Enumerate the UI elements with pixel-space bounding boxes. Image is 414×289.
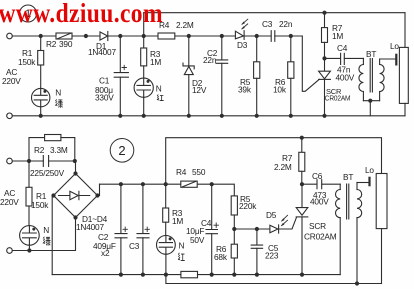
node C2 top: [220, 34, 224, 38]
node R5 top: [255, 34, 259, 38]
svg-text:1M: 1M: [172, 216, 183, 226]
svg-text:C1: C1: [99, 76, 110, 86]
node neon2 bottom: [27, 248, 31, 252]
node C1 top: [118, 34, 122, 38]
svg-text:R4: R4: [176, 167, 187, 177]
svg-text:x2: x2: [101, 248, 110, 258]
svg-text:12V: 12V: [192, 85, 207, 95]
svg-text:223: 223: [265, 251, 279, 261]
svg-text:10k: 10k: [273, 85, 287, 95]
wire neon red 2 bottom: [165, 254, 167, 274]
zener D2 12V: [188, 36, 190, 66]
node R1 top: [39, 34, 43, 38]
svg-text:SCR: SCR: [309, 221, 326, 231]
diode D1 1N4007: [100, 32, 108, 40]
svg-text:N: N: [55, 88, 61, 98]
wire R1-neon to bottom: [40, 107, 42, 116]
resistor R5 39k: [256, 36, 258, 62]
svg-text:BT: BT: [343, 172, 353, 182]
node BT2 secondary bottom: [355, 281, 359, 285]
svg-text:C6: C6: [312, 171, 323, 181]
capacitor C4 10uF 50V: [211, 184, 213, 229]
svg-text:150k: 150k: [18, 57, 36, 67]
wire BT1 bottom: [363, 100, 379, 102]
node SCR anode / C4: [322, 56, 326, 60]
svg-text:2.2M: 2.2M: [176, 20, 194, 30]
neon lamp N red 2: [157, 236, 176, 255]
svg-text:N: N: [156, 84, 162, 94]
wire bridge right to DC+: [98, 184, 100, 195]
SCR1 CR02AM: [324, 58, 326, 71]
resistor R4 2.2M: [158, 33, 175, 39]
wire neon green 2 bottom: [28, 245, 30, 250]
svg-text:50V: 50V: [190, 235, 205, 245]
photodiode D5: [270, 225, 278, 233]
resistor unlabeled in DC- rail: [181, 271, 198, 277]
node R6 top: [289, 34, 293, 38]
svg-text:R2: R2: [34, 145, 45, 155]
node C3(2) top: [141, 182, 145, 186]
neon lamp N green 2: [20, 226, 40, 246]
capacitor C1 800u 330V: [119, 36, 121, 72]
neon lamp N red 1: [134, 78, 153, 97]
resistor R7 2.2M: [301, 138, 303, 153]
svg-text:1M: 1M: [150, 57, 161, 67]
wire AC line 2: [12, 218, 75, 251]
wire Lo2 bottom: [381, 229, 383, 284]
wire gate path: [302, 36, 319, 91]
wire DC+ line y=184.2: [100, 184, 235, 196]
flash tube Lo1: [399, 47, 408, 103]
neon lamp N green 1: [32, 88, 50, 106]
terminal T4: [7, 248, 13, 254]
resistor R2 3.3M bypass: [29, 138, 45, 161]
bridge inner diode: [59, 195, 90, 197]
node C2(2) top: [119, 182, 123, 186]
node C5 top: [255, 227, 259, 231]
svg-text:C3: C3: [262, 19, 273, 29]
wire neon red to bottom: [143, 97, 145, 116]
trigger plate 1: [395, 55, 397, 65]
capacitor C4 47n 400V: [325, 57, 341, 59]
svg-text:550: 550: [192, 167, 206, 177]
capacitor C2 22n: [221, 36, 223, 60]
circled number 1: [20, 5, 37, 22]
node pre-D1: [84, 34, 88, 38]
resistor R4 550: [181, 181, 197, 187]
svg-text:2: 2: [118, 143, 125, 158]
LED D3: [235, 31, 243, 39]
resistor R6 10k: [290, 36, 292, 62]
wire top rail y=12.7: [144, 12, 405, 14]
svg-text:39k: 39k: [238, 85, 252, 95]
CJK glyph red 2: [178, 253, 185, 261]
svg-text:R2: R2: [46, 39, 57, 49]
wire Lo1 bottom: [404, 103, 406, 115]
capacitor C3 22n: [271, 31, 275, 42]
wire bridge top riser: [75, 161, 77, 174]
resistor R3 1M (2): [165, 184, 167, 208]
svg-text:150k: 150k: [31, 200, 49, 210]
labels circuit 2: [0, 145, 374, 262]
node R4 right / C4 top: [210, 182, 214, 186]
node R5 bottom: [232, 227, 236, 231]
terminal T1 top-left: [7, 33, 13, 39]
svg-text:D3: D3: [237, 40, 248, 50]
watermark www.dziuu.com: [0, 0, 163, 28]
capacitor C3 409uF: [142, 184, 144, 233]
svg-text:Lo: Lo: [365, 165, 374, 175]
resistor R7 1M: [324, 13, 326, 28]
bridge corner nodes: [73, 171, 77, 175]
transformer BT1 primary: [362, 58, 364, 64]
svg-text:2.2M: 2.2M: [274, 162, 292, 172]
svg-text:220k: 220k: [239, 201, 257, 211]
transformer BT2 primary: [339, 184, 341, 189]
transformer BT1 secondary: [379, 59, 381, 65]
flash tube Lo2: [376, 174, 387, 229]
wire top main y=36: [12, 35, 302, 37]
svg-text:www.dziuu.com: www.dziuu.com: [0, 0, 163, 28]
resistor R1 150k: [40, 36, 42, 51]
node R3(2) top / rail riser: [164, 182, 168, 186]
wire riser to top rail: [143, 13, 145, 36]
svg-text:1N4007: 1N4007: [76, 222, 104, 232]
resistor R3 1M: [143, 36, 145, 48]
wire AC line 1: [12, 160, 75, 162]
svg-text:3.3M: 3.3M: [50, 145, 68, 155]
svg-text:68k: 68k: [214, 252, 228, 262]
node R7(2) top on rail: [300, 136, 304, 140]
svg-text:N: N: [179, 241, 185, 251]
labels circuit 1: [2, 19, 399, 103]
circled number 2: [110, 139, 134, 163]
svg-text:C4: C4: [337, 43, 348, 53]
CJK glyph green 1: [55, 99, 63, 107]
resistor R2 390: [56, 33, 72, 39]
trigger plate 2: [368, 178, 370, 185]
capacitor C5 223: [256, 229, 258, 245]
wire DC- rail y=274.6: [52, 274, 340, 276]
node SCR2 anode / C6: [300, 182, 304, 186]
resistor R6 68k: [233, 229, 235, 244]
wire bottom rail y=115.8: [12, 115, 405, 117]
capacitor C2 409uF: [120, 184, 122, 233]
svg-text:Lo: Lo: [390, 41, 399, 51]
svg-text:390: 390: [59, 39, 73, 49]
CJK glyph red 1: [157, 95, 164, 101]
svg-text:400V: 400V: [310, 197, 329, 207]
svg-text:CR02AM: CR02AM: [304, 232, 337, 242]
terminal T3: [7, 158, 13, 164]
wire lower return line: [166, 275, 382, 284]
svg-text:1N4007: 1N4007: [88, 47, 116, 57]
terminal T2 bottom-left: [7, 113, 13, 119]
transformer BT2 secondary: [356, 183, 358, 190]
svg-text:N: N: [43, 225, 49, 235]
node D2 top: [187, 34, 191, 38]
capacitor C6 473 400V: [302, 183, 317, 185]
wire bridge left to DC-: [52, 196, 53, 275]
transformer BT2 core: [347, 184, 349, 219]
resistor R5 220k: [231, 196, 237, 215]
bridge D1~D4 diamond: [54, 174, 98, 218]
svg-text:400V: 400V: [336, 73, 355, 83]
svg-text:220V: 220V: [2, 76, 21, 86]
wire BT1 secondary top to trigger plate: [380, 58, 395, 60]
node R2 left: [27, 159, 31, 163]
svg-text:22n: 22n: [203, 55, 217, 65]
capacitor 225/250V: [43, 156, 48, 167]
node R7 top on rail: [322, 11, 326, 15]
transformer BT1 core: [370, 59, 372, 93]
svg-text:330V: 330V: [95, 93, 114, 103]
node R2 right: [73, 159, 77, 163]
wire rail down to Lo top: [404, 13, 406, 48]
node dots DC- rail: [119, 273, 123, 277]
node R3 top / riser: [142, 34, 146, 38]
wire riser to top rail 2: [166, 138, 382, 185]
resistor R1 150k (2): [28, 161, 30, 187]
svg-text:CR02AM: CR02AM: [325, 94, 351, 103]
svg-text:22n: 22n: [279, 19, 293, 29]
svg-text:D5: D5: [266, 210, 277, 220]
node dots bottom rail: [39, 114, 43, 118]
SCR2 CR02AM: [301, 184, 303, 207]
svg-text:1M: 1M: [332, 31, 343, 41]
CJK glyph green 2: [43, 237, 51, 246]
wire BT2 secondary top to trigger plate: [357, 182, 369, 184]
svg-text:BT: BT: [366, 49, 376, 59]
wire D5 line: [234, 218, 296, 229]
svg-text:220V: 220V: [0, 197, 19, 207]
svg-text:225/250V: 225/250V: [30, 168, 65, 178]
svg-text:C3: C3: [129, 241, 140, 251]
